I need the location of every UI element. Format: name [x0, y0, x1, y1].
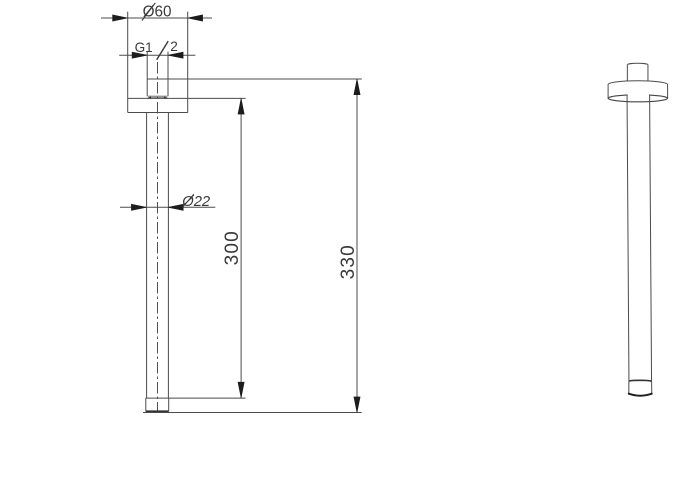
dim line Ø22 [120, 206, 215, 208]
right view stub [627, 63, 648, 81]
dim 330 line [356, 79, 358, 412]
dim 300 top arrow [238, 99, 244, 115]
right view end ring [629, 380, 652, 395]
extension line left / flange left edge [127, 12, 129, 113]
dim Ø22 right arrow [168, 204, 183, 210]
330 bottom extension line [143, 412, 362, 414]
svg-text:Ø60: Ø60 [143, 4, 172, 21]
dim 300 bottom arrow [238, 382, 244, 398]
thread bore bottom fill [147, 96, 168, 99]
svg-text:Ø22: Ø22 [181, 194, 211, 210]
svg-text:300: 300 [222, 230, 243, 265]
dim Ø60 left arrow [113, 15, 128, 21]
dim 330 top arrow [354, 79, 360, 95]
svg-text:2: 2 [170, 39, 178, 54]
dim G1/2 label [135, 39, 178, 60]
tube left line [146, 113, 148, 399]
flange bottom edge [128, 112, 188, 114]
dim Ø22 left arrow [131, 204, 146, 210]
thread depth line / 330 top extension line [147, 78, 362, 80]
dim G1/2 left arrow [132, 52, 147, 58]
thread bore left line [146, 52, 148, 97]
centerline [157, 62, 159, 411]
dim line Ø60 [101, 17, 212, 19]
dim Ø60 right arrow [188, 15, 203, 21]
dim 300 line [240, 99, 242, 398]
extension line right / flange right edge [187, 12, 189, 113]
tube right line [167, 113, 169, 399]
svg-text:G1: G1 [135, 40, 153, 55]
300 bottom extension line / end cap top [146, 397, 246, 399]
dim line G1/2 / flange top edge [119, 54, 195, 56]
tube end cap [146, 398, 169, 411]
dim 330 bottom arrow [354, 397, 360, 413]
dim G1/2 right arrow [168, 52, 183, 58]
right view flange disc [608, 81, 668, 102]
right view tube [627, 95, 652, 381]
flange step line / 300 top extension line [128, 97, 246, 99]
thread bore right line [167, 52, 169, 97]
svg-text:330: 330 [338, 244, 359, 279]
